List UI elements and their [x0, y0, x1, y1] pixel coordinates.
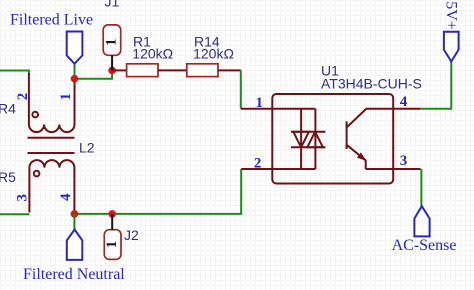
jumper J1 pin lead: [111, 55, 113, 70]
transformer L2 core lines: [28, 138, 75, 153]
opto internal left rail: [300, 109, 302, 169]
svg-text:J1: J1: [105, 0, 120, 10]
svg-text:1: 1: [104, 241, 120, 249]
svg-text:120kΩ: 120kΩ: [132, 46, 173, 62]
wire left-bottom to transformer pin 3: [0, 213, 29, 215]
wire node B to Filtered Neutral flag: [73, 214, 75, 230]
lead node J1 to R1: [112, 69, 127, 71]
jumper J2 pin lead: [111, 214, 113, 230]
wire node A to J1 node: [75, 70, 113, 78]
opto diode triangle up: [307, 132, 323, 148]
transformer L2 winding 1 arcs: [29, 125, 75, 133]
svg-text:5V+: 5V+: [443, 1, 460, 30]
opto U1 body: [272, 94, 393, 184]
opto internal right rail: [314, 109, 316, 169]
phototransistor emitter with arrow: [347, 145, 421, 169]
opto diode top bar: [291, 131, 325, 133]
transformer L2 winding 2 arcs: [29, 160, 74, 168]
lead R14 right: [218, 69, 241, 71]
svg-text:1: 1: [104, 38, 120, 46]
phototransistor bar: [346, 121, 348, 149]
svg-text:3: 3: [14, 194, 30, 202]
junction node J2: [108, 210, 116, 218]
svg-text:Filtered Neutral: Filtered Neutral: [23, 266, 125, 283]
svg-text:4: 4: [400, 94, 408, 110]
transformer L2 winding 1 left lead (pin 2): [28, 73, 30, 125]
wire opto pin 4 to 5V+: [421, 62, 452, 109]
svg-text:AC-Sense: AC-Sense: [392, 237, 457, 254]
svg-text:2: 2: [254, 155, 262, 171]
wire left-top to transformer pin 2: [0, 71, 29, 76]
wire R14 to opto pin 1: [240, 70, 242, 108]
phototransistor collector: [347, 109, 421, 128]
opto diode triangle down: [293, 132, 309, 148]
svg-text:L2: L2: [79, 140, 95, 156]
junction node J1: [108, 67, 116, 75]
transformer L2 winding 1 polarity dot: [32, 112, 38, 118]
svg-text:1: 1: [58, 93, 74, 101]
svg-text:1: 1: [256, 95, 264, 111]
resistor R14: [187, 64, 218, 77]
opto pin 2 lead and bottom internal rail line: [241, 168, 315, 170]
svg-text:R5: R5: [0, 169, 16, 185]
transformer L2 winding 2 polarity dot: [34, 171, 40, 177]
svg-text:AT3H4B-CUH-S: AT3H4B-CUH-S: [321, 76, 422, 92]
svg-text:4: 4: [58, 193, 74, 201]
svg-text:2: 2: [15, 93, 31, 101]
flag Filtered Live: [67, 32, 83, 64]
svg-text:3: 3: [400, 153, 408, 169]
flag Filtered Neutral: [67, 230, 83, 260]
flag AC-Sense: [414, 206, 429, 236]
phototransistor emitter arrowhead: [357, 152, 366, 161]
resistor R1: [127, 64, 158, 77]
transformer L2 winding 2 right lead (pin 4): [73, 168, 75, 214]
opto diode bottom bar: [291, 146, 325, 148]
svg-text:R4: R4: [0, 101, 16, 117]
transformer L2 winding 1 right lead (pin 1): [74, 79, 76, 125]
flag 5V+: [444, 32, 459, 62]
wire opto pin 3 to AC-Sense: [420, 169, 422, 206]
lead R1 to R14: [158, 69, 187, 71]
opto pin 1 lead and top internal rail line: [241, 108, 316, 110]
transformer L2 winding 2 left lead (pin 3): [28, 168, 30, 213]
wire from Filtered Live flag to node A: [74, 64, 76, 79]
svg-text:J2: J2: [124, 227, 139, 243]
svg-text:Filtered Live: Filtered Live: [10, 12, 93, 29]
jumper J1 body: [103, 25, 121, 55]
wire opto pin 2 down and across (bottom bus): [74, 169, 241, 214]
jumper J2 body: [104, 230, 121, 260]
svg-text:120kΩ: 120kΩ: [193, 46, 234, 62]
junction node A: [71, 75, 79, 83]
junction node B (transformer pin 4): [71, 210, 79, 218]
